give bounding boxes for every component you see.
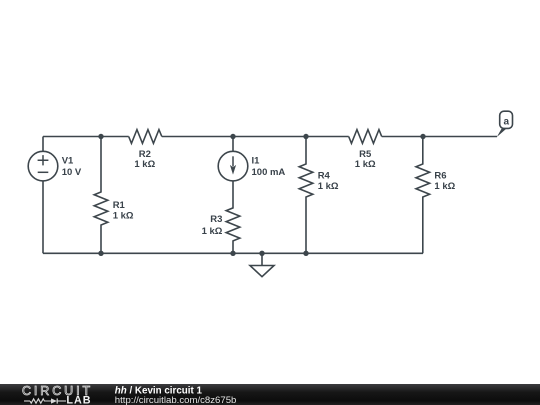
current source I1 leads (232, 137, 234, 152)
CircuitLab logo diode (51, 398, 57, 403)
node top R4 (303, 134, 308, 139)
node flag a box (500, 111, 513, 128)
resistor R2 (129, 130, 162, 144)
CircuitLab logo squiggle wire (24, 400, 30, 402)
wire top bus middle segment (162, 136, 349, 138)
ground (261, 253, 263, 265)
svg-text:R6: R6 (434, 170, 446, 181)
wire top bus left segment (43, 136, 129, 138)
node flag a pointer (497, 129, 507, 137)
svg-text:R5: R5 (359, 149, 372, 160)
svg-text:http://circuitlab.com/c8z675b: http://circuitlab.com/c8z675b (115, 395, 237, 405)
svg-text:V1: V1 (62, 156, 74, 167)
node bottom R1 (98, 251, 103, 256)
voltage source V1 leads (42, 137, 44, 152)
node bottom R3 (230, 251, 235, 256)
wire top bus right segment (382, 136, 497, 138)
voltage source V1 body (28, 151, 58, 181)
V1 plus sign (38, 155, 49, 165)
svg-text:R3: R3 (210, 214, 222, 225)
svg-text:R2: R2 (139, 149, 151, 160)
resistor R4 (299, 137, 313, 254)
svg-text:R1: R1 (113, 200, 126, 211)
svg-text:I1: I1 (252, 156, 261, 167)
I1 arrow (232, 156, 234, 166)
node top R1 (98, 134, 103, 139)
svg-text:1 kΩ: 1 kΩ (134, 159, 155, 170)
V1 minus sign (38, 171, 49, 173)
svg-text:1 kΩ: 1 kΩ (202, 226, 223, 237)
node bottom ground (259, 251, 264, 256)
current source I1 body (218, 151, 248, 181)
svg-text:R4: R4 (318, 170, 331, 181)
svg-text:1 kΩ: 1 kΩ (355, 159, 376, 170)
svg-text:100 mA: 100 mA (252, 167, 286, 178)
footer bar (0, 384, 540, 405)
svg-text:10 V: 10 V (62, 167, 82, 178)
node top I1 (230, 134, 235, 139)
svg-text:LAB: LAB (66, 394, 91, 405)
wire bottom bus (43, 252, 423, 254)
resistor R6 (416, 137, 430, 254)
node bottom R4 (303, 251, 308, 256)
svg-text:a: a (504, 116, 510, 127)
CircuitLab logo squiggle wire right (57, 400, 66, 402)
svg-text:1 kΩ: 1 kΩ (318, 181, 339, 192)
CircuitLab logo squiggle resistor (30, 399, 51, 403)
node top R6 (420, 134, 425, 139)
svg-text:1 kΩ: 1 kΩ (434, 181, 455, 192)
resistor R1 (94, 137, 108, 254)
resistor R3 (226, 181, 240, 253)
junction node dots (98, 134, 425, 256)
resistor R5 (349, 130, 382, 144)
svg-text:1 kΩ: 1 kΩ (113, 210, 134, 221)
